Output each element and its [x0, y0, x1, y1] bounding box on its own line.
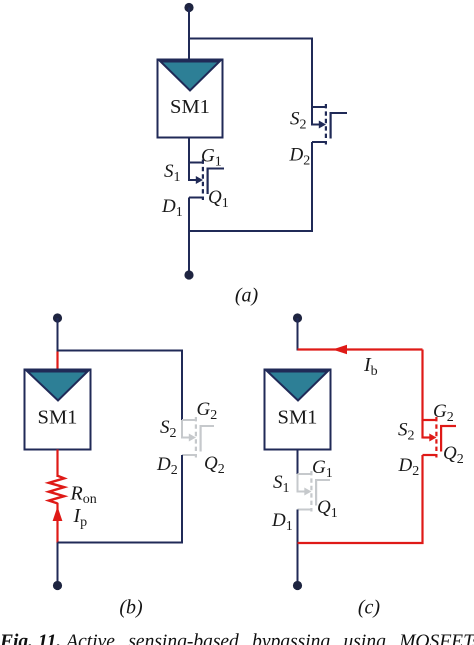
transistor Q2 (a): channel (dashed) — [325, 104, 327, 145]
svg-text:G2: G2 — [433, 401, 454, 425]
wire: top branch to right leg (a) — [189, 38, 312, 40]
label (a) — [235, 285, 259, 307]
label G2 (c) — [433, 401, 454, 425]
label G1 (a) — [201, 146, 222, 170]
transistor Q2 (b, inactive): channel (dashed) — [195, 417, 197, 458]
transistor Q2 (b, inactive): gate lead — [200, 425, 214, 427]
label SM1 (a) — [170, 96, 210, 118]
svg-text:D2: D2 — [156, 454, 178, 478]
transistor Q2 (c, active red): body arrow — [423, 434, 437, 442]
transistor Q2 (a): gate bar — [330, 112, 332, 139]
svg-text:S1: S1 — [273, 472, 290, 496]
label D1 (a) — [161, 196, 183, 220]
node: top terminal (b) — [53, 313, 62, 322]
label D2 (c) — [398, 455, 420, 479]
wire (red): SM1 to resistor (b) — [56, 450, 58, 478]
transistor Q1 (a): source stub — [189, 162, 202, 164]
transistor Q1 (c, inactive): body arrow — [298, 488, 312, 496]
transistor Q2 (c, active red): source-body vertical — [421, 420, 423, 439]
wire: Q1 drain to bottom (c) — [297, 510, 299, 582]
svg-text:SM1: SM1 — [278, 407, 318, 429]
transistor Q1 (c, inactive): source stub — [298, 473, 311, 475]
label Q1 (c) — [317, 497, 338, 521]
wire: SM1 to Q1 (a) — [188, 138, 190, 164]
svg-text:S2: S2 — [398, 420, 415, 444]
transistor Q2 (b, inactive): gate bar — [200, 425, 202, 452]
wire (red): branch into SM1 (b) — [56, 352, 58, 371]
wire: right leg lower to bottom rail (a) — [189, 142, 312, 231]
svg-text:G2: G2 — [197, 399, 218, 423]
wire: bottom vertical (b) — [57, 543, 59, 582]
module SM1 (b): bypass-diode triangle — [28, 372, 88, 401]
svg-text:Q1: Q1 — [317, 497, 338, 521]
module SM1 (c): bypass-diode triangle — [268, 372, 328, 401]
module SM1 (b): box — [25, 370, 91, 450]
module SM1 (c): box — [265, 370, 331, 450]
label Ron (b) — [70, 483, 97, 508]
wire: top vertical feed (b) — [57, 318, 59, 352]
label S1 (a) — [164, 161, 181, 185]
svg-text:SM1: SM1 — [38, 407, 78, 429]
transistor Q2 (b, inactive): source stub — [182, 419, 195, 421]
transistor Q2 (a): source stub — [312, 106, 325, 108]
transistor Q1 (c, inactive): source-body vertical — [297, 474, 299, 493]
wire: top vertical feed (a) — [188, 8, 190, 60]
current arrow Ip head (b) — [53, 507, 63, 522]
caption Fig. 11 — [0, 632, 474, 645]
transistor Q2 (b, inactive): body arrow — [182, 434, 196, 442]
transistor Q1 (a): channel (dashed) — [202, 160, 204, 201]
label S1 (c) — [273, 472, 290, 496]
module SM1 (a): bypass-diode triangle — [161, 62, 220, 91]
svg-text:Ib: Ib — [363, 354, 378, 379]
node: top terminal (a) — [184, 3, 193, 12]
wire (red): bypass top rail (c) — [298, 348, 423, 350]
transistor Q2 (c, active red): channel (dashed) — [435, 417, 437, 458]
resistor Ron (b) — [49, 476, 64, 504]
svg-text:Ip: Ip — [73, 505, 88, 530]
node: top terminal (c) — [293, 313, 302, 322]
label D2 (a) — [289, 145, 311, 169]
transistor Q1 (a): drain stub — [189, 197, 202, 199]
label (c) — [358, 597, 381, 619]
node: bottom terminal (c) — [293, 581, 302, 590]
wire: top vertical feed (c) — [297, 318, 299, 351]
svg-text:D1: D1 — [271, 510, 293, 534]
label (b) — [119, 597, 143, 619]
wire: right leg lower to bottom rail (b) — [58, 455, 183, 543]
transistor Q1 (c, inactive): drain stub — [298, 509, 311, 511]
transistor Q2 (a): gate lead — [330, 112, 347, 114]
svg-text:(a): (a) — [235, 285, 259, 307]
wire: bottom vertical (a) — [188, 231, 190, 271]
transistor Q1 (a): gate lead — [207, 168, 224, 170]
transistor Q2 (a): drain stub — [312, 141, 325, 143]
svg-text:(c): (c) — [358, 597, 381, 619]
module SM1 (a): box — [158, 60, 223, 138]
wire: right leg upper (a) — [311, 38, 313, 108]
transistor Q1 (c, inactive): channel (dashed) — [310, 471, 312, 512]
transistor Q2 (a): source-body vertical — [311, 107, 313, 126]
transistor Q1 (a): body arrow — [189, 176, 203, 184]
svg-text:Q2: Q2 — [443, 443, 464, 467]
label SM1 (c) — [278, 407, 318, 429]
transistor Q2 (c, active red): gate lead — [440, 425, 456, 427]
current arrow Ib head (c) — [333, 345, 348, 355]
svg-text:G1: G1 — [201, 146, 222, 170]
label SM1 (b) — [38, 407, 78, 429]
label G2 (b) — [197, 399, 218, 423]
label Ib (c) — [363, 354, 378, 379]
svg-text:D2: D2 — [398, 455, 420, 479]
label S2 (b) — [160, 417, 177, 441]
node: bottom terminal (a) — [184, 270, 193, 279]
transistor Q1 (c, inactive): gate lead — [315, 479, 330, 481]
svg-text:SM1: SM1 — [170, 96, 210, 118]
node: bottom terminal (b) — [53, 581, 62, 590]
label G1 (c) — [312, 457, 333, 481]
transistor Q2 (b, inactive): source-body vertical — [181, 420, 183, 439]
svg-text:D2: D2 — [289, 145, 311, 169]
transistor Q1 (c, inactive): gate bar — [315, 479, 317, 506]
transistor Q2 (c, active red): drain stub — [423, 454, 436, 456]
transistor Q1 (a): gate bar — [207, 168, 209, 195]
svg-text:Q1: Q1 — [208, 187, 229, 211]
svg-text:Ron: Ron — [70, 483, 97, 508]
wire (red): right leg upper (c) — [421, 350, 423, 421]
wire (red): resistor to bottom rail (b) — [56, 503, 58, 543]
label S2 (a) — [290, 109, 307, 133]
svg-text:S2: S2 — [160, 417, 177, 441]
wire: Q1 drain down (a) — [188, 198, 190, 233]
wire: top branch to right leg (b) — [58, 350, 183, 352]
svg-text:S2: S2 — [290, 109, 307, 133]
transistor Q2 (b, inactive): drain stub — [182, 454, 195, 456]
svg-text:G1: G1 — [312, 457, 333, 481]
label D2 (b) — [156, 454, 178, 478]
wire (red): right leg lower to bottom rail (c) — [298, 455, 423, 543]
svg-text:(b): (b) — [119, 597, 143, 619]
label Q2 (b) — [204, 453, 225, 477]
wire: right leg upper (b) — [181, 350, 183, 421]
label Q1 (a) — [208, 187, 229, 211]
transistor Q2 (c, active red): gate bar — [440, 425, 442, 452]
label D1 (c) — [271, 510, 293, 534]
wire: SM1 to Q1 (c) — [297, 450, 299, 476]
svg-text:Q2: Q2 — [204, 453, 225, 477]
label S2 (c) — [398, 420, 415, 444]
transistor Q2 (c, active red): source stub — [423, 419, 436, 421]
svg-text:S1: S1 — [164, 161, 181, 185]
svg-text:D1: D1 — [161, 196, 183, 220]
transistor Q2 (a): body arrow — [312, 121, 326, 129]
label Ip (b) — [73, 505, 88, 530]
transistor Q1 (a): source-body vertical — [188, 163, 190, 182]
svg-text:Fig. 11.Active sensing-based b: Fig. 11.Active sensing-based bypassing u… — [0, 632, 474, 645]
label Q2 (c) — [443, 443, 464, 467]
